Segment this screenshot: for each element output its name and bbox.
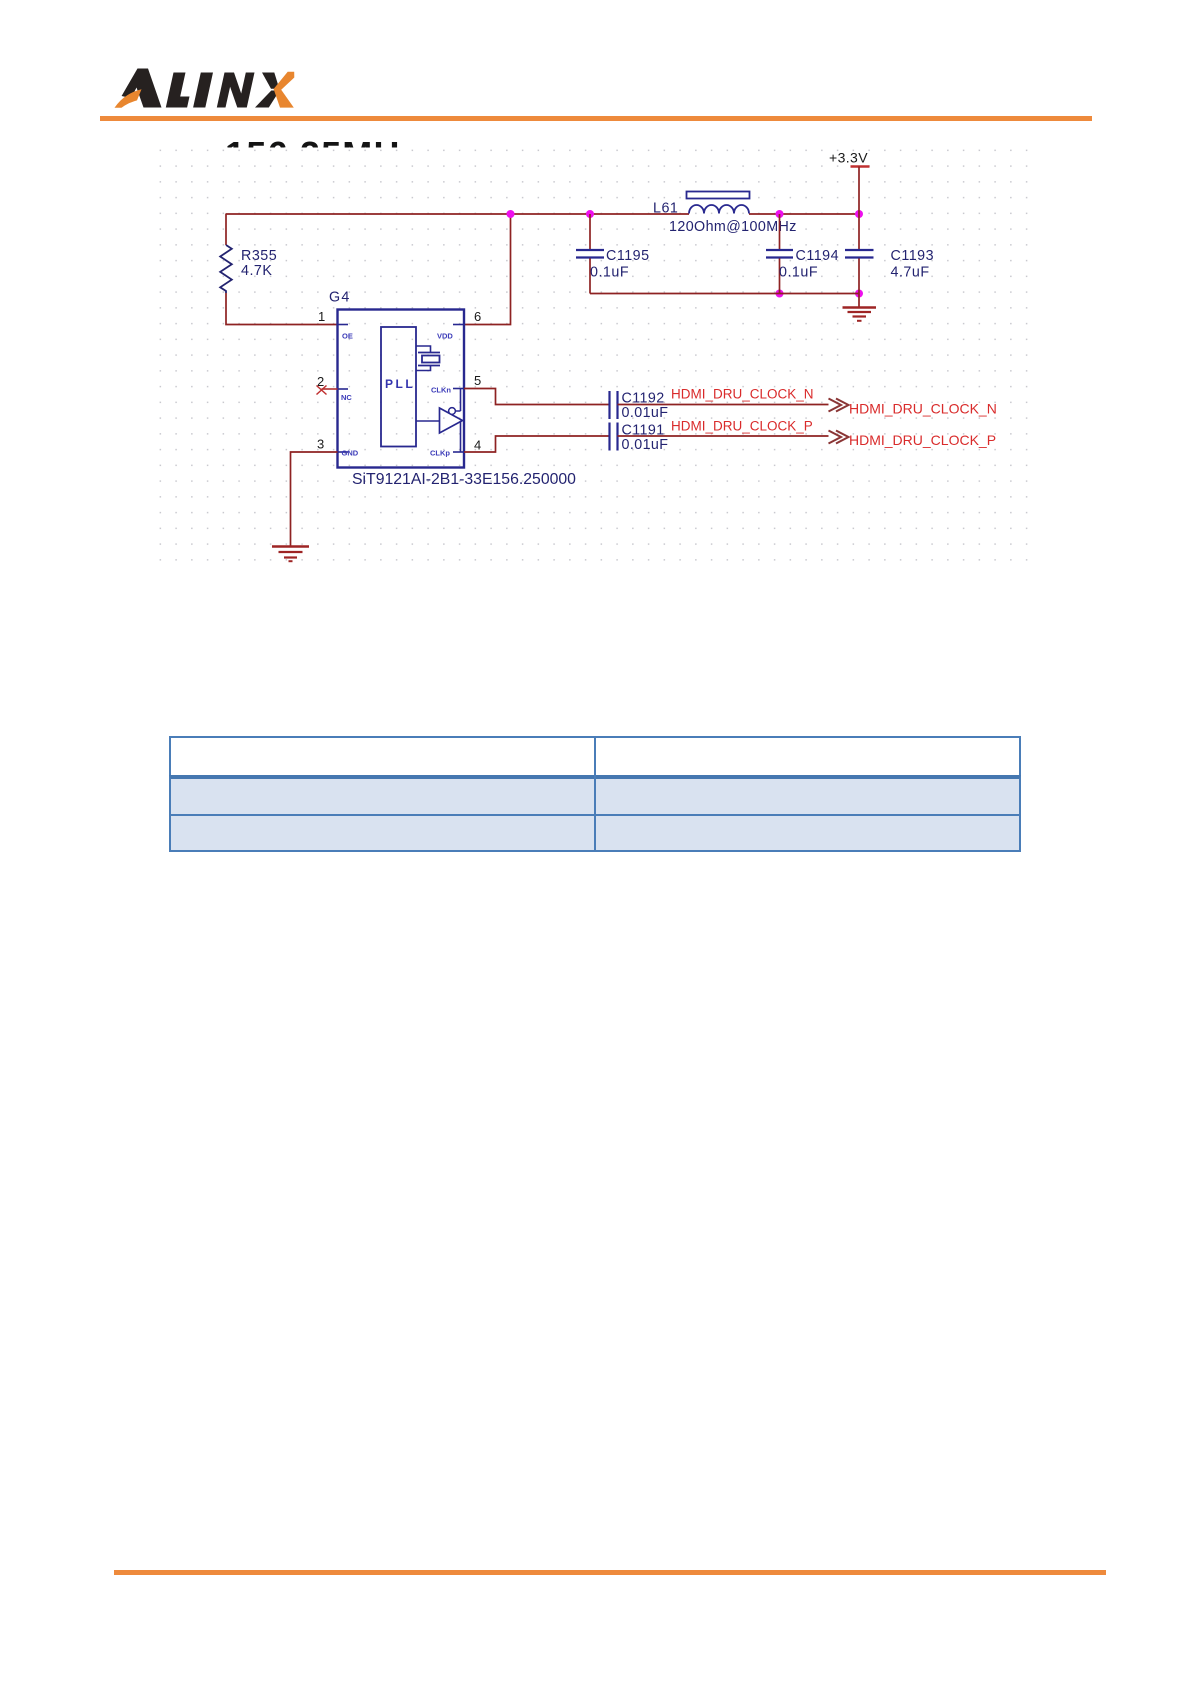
svg-text:0.1uF: 0.1uF (590, 265, 629, 281)
svg-text:4: 4 (474, 438, 481, 453)
wire top rail left of L61 (226, 213, 689, 215)
buffer output routing (456, 389, 461, 453)
svg-text:SiT9121AI-2B1-33E156.250000: SiT9121AI-2B1-33E156.250000 (352, 471, 576, 488)
svg-text:L61: L61 (653, 201, 678, 217)
wire C1191 to port P (618, 435, 829, 437)
heading text (mostly hidden behind schematic white area) (225, 137, 420, 173)
wire pin6 to top rail (464, 214, 511, 325)
wire C1192 to port N (618, 404, 829, 406)
svg-text:5: 5 (474, 373, 481, 388)
port chevron P (829, 431, 849, 444)
table row 3 (169, 814, 1021, 852)
inductor L61 coils (689, 205, 749, 214)
wire top rail right of L61 (749, 213, 859, 215)
svg-text:CLKp: CLKp (430, 449, 450, 458)
wire pin3 to ground (291, 452, 338, 547)
svg-text:0.01uF: 0.01uF (622, 405, 669, 421)
ground below C1193 (858, 294, 860, 308)
logo letter X orange chevron (274, 72, 295, 108)
capacitor C1191 (610, 423, 618, 451)
IC G4 SiT9121 outline (338, 310, 465, 468)
svg-text:HDMI_DRU_CLOCK_N: HDMI_DRU_CLOCK_N (671, 387, 814, 402)
port chevron N (829, 399, 849, 412)
ALINX logo (0, 0, 340, 130)
node junction bottom rail / C1194 (776, 290, 784, 298)
resistor R355 (220, 245, 232, 293)
node junction top rail / C1194 (776, 210, 784, 218)
svg-text:G4: G4 (329, 290, 350, 306)
output buffer triangle (416, 420, 440, 422)
svg-text:1: 1 (318, 309, 325, 324)
wire resistor to pin 1 (226, 293, 337, 325)
capacitor C1195 (589, 214, 591, 249)
ground below pin 3 (272, 545, 309, 547)
table row 1 (header, white) (169, 736, 1021, 775)
svg-text:VDD: VDD (437, 332, 453, 341)
footer orange rule (114, 1570, 1106, 1575)
header orange rule (100, 116, 1092, 122)
capacitor C1193 (858, 214, 860, 249)
svg-text:0.1uF: 0.1uF (779, 265, 818, 281)
capacitor C1194 (779, 214, 781, 249)
logo letter X black chevron (262, 73, 279, 89)
table row 2 (169, 775, 1021, 814)
svg-text:PLL: PLL (385, 377, 415, 391)
svg-text:0.01uF: 0.01uF (622, 437, 669, 453)
logo letter L (166, 73, 190, 108)
logo A orange swoosh (115, 89, 142, 108)
wire pin4 to C1191 (464, 436, 610, 452)
wire pin5 to C1192 (464, 389, 610, 405)
capacitor C1192 (610, 391, 618, 419)
wire bottom rail (590, 293, 859, 295)
svg-text:CLKn: CLKn (431, 386, 451, 395)
svg-text:HDMI_DRU_CLOCK_N: HDMI_DRU_CLOCK_N (849, 401, 997, 417)
crystal symbol (416, 346, 431, 352)
logo letter N (217, 73, 255, 108)
node junction top rail / +3.3V (855, 210, 863, 218)
schematic white background (155, 148, 1032, 569)
PLL block (381, 327, 416, 447)
schematic drawing (0, 0, 1191, 700)
wire left vertical to resistor (225, 214, 227, 246)
table (169, 736, 1021, 852)
svg-text:4.7K: 4.7K (241, 263, 272, 279)
node junction bottom rail / C1193 (855, 290, 863, 298)
svg-text:HDMI_DRU_CLOCK_P: HDMI_DRU_CLOCK_P (671, 419, 813, 434)
svg-text:6: 6 (474, 309, 481, 324)
svg-text:3: 3 (317, 437, 324, 452)
table column divider (594, 736, 596, 852)
svg-text:+3.3V: +3.3V (829, 150, 868, 166)
svg-text:C1195: C1195 (606, 248, 650, 264)
svg-text:NC: NC (341, 393, 352, 402)
buffer inversion bubble (449, 408, 456, 415)
svg-text:120Ohm@100MHz: 120Ohm@100MHz (669, 219, 797, 235)
svg-text:R355: R355 (241, 248, 277, 264)
svg-text:4.7uF: 4.7uF (891, 265, 930, 281)
node junction top rail / pin6 (507, 210, 515, 218)
svg-text:C1194: C1194 (796, 248, 840, 264)
svg-text:C1193: C1193 (891, 248, 935, 264)
svg-text:HDMI_DRU_CLOCK_P: HDMI_DRU_CLOCK_P (849, 432, 996, 448)
logo letter A black (136, 69, 162, 108)
svg-text:OE: OE (342, 332, 353, 341)
svg-text:GND: GND (342, 449, 359, 458)
node junction top rail / C1195 (586, 210, 594, 218)
logo letter I (193, 73, 213, 108)
inductor L61 ferrite bead body (687, 192, 750, 199)
